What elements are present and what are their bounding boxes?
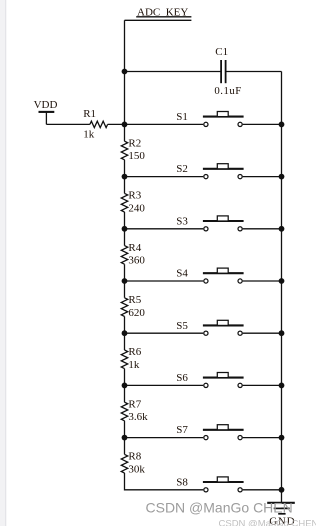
switch S5 xyxy=(125,320,282,336)
resistor R2 xyxy=(121,137,145,162)
switch S6 xyxy=(125,372,282,388)
svg-text:VDD: VDD xyxy=(34,99,58,111)
junction dots right rail xyxy=(279,122,285,493)
svg-text:R7: R7 xyxy=(128,398,141,410)
wire: R1 to left rail xyxy=(108,123,125,125)
wire: right rail xyxy=(281,72,283,503)
svg-text:R1: R1 xyxy=(83,108,96,120)
svg-text:S1: S1 xyxy=(176,111,188,123)
switch S4 xyxy=(125,268,282,284)
power VDD xyxy=(34,99,58,125)
wire: ADC_KEY stub xyxy=(125,19,192,21)
resistor R3 xyxy=(121,190,145,215)
junction dots left rail xyxy=(122,122,128,441)
wire: left rail xyxy=(125,20,204,490)
svg-text:R5: R5 xyxy=(128,294,141,306)
resistor R7 xyxy=(121,398,148,423)
svg-text:150: 150 xyxy=(128,150,145,162)
svg-text:1k: 1k xyxy=(83,129,95,141)
svg-text:1k: 1k xyxy=(128,359,140,371)
junction: left rail at C1 row xyxy=(122,69,128,75)
resistor R1 xyxy=(83,108,107,140)
net label ADC_KEY xyxy=(136,6,191,18)
svg-text:S2: S2 xyxy=(176,163,188,175)
svg-text:3.6k: 3.6k xyxy=(128,411,148,423)
svg-text:R3: R3 xyxy=(128,190,141,202)
svg-text:S5: S5 xyxy=(176,320,188,332)
svg-text:S7: S7 xyxy=(176,424,188,436)
svg-text:R8: R8 xyxy=(128,451,141,463)
svg-text:620: 620 xyxy=(128,307,145,319)
svg-text:R6: R6 xyxy=(128,346,141,358)
svg-text:CSDN @ManGo CHEN: CSDN @ManGo CHEN xyxy=(146,499,293,515)
wire: VDD to R1 xyxy=(46,123,90,125)
resistor R8 xyxy=(121,451,145,476)
resistor R4 xyxy=(121,242,145,267)
svg-text:S8: S8 xyxy=(176,476,188,488)
switch S3 xyxy=(125,215,282,231)
left page gutter xyxy=(0,0,5,526)
svg-text:S6: S6 xyxy=(176,372,188,384)
svg-text:S3: S3 xyxy=(176,215,188,227)
svg-text:30k: 30k xyxy=(128,463,145,475)
switch S8 xyxy=(176,476,281,492)
switch S7 xyxy=(125,424,282,440)
svg-text:S4: S4 xyxy=(176,268,188,280)
switch S1 xyxy=(125,111,282,127)
svg-text:C1: C1 xyxy=(215,46,228,58)
svg-text:R4: R4 xyxy=(128,242,141,254)
svg-text:0.1uF: 0.1uF xyxy=(214,85,241,97)
svg-text:360: 360 xyxy=(128,255,145,267)
svg-text:CSDN @ManGo CHEN: CSDN @ManGo CHEN xyxy=(219,518,317,526)
svg-text:R2: R2 xyxy=(128,137,141,149)
svg-text:240: 240 xyxy=(128,202,145,214)
capacitor C1 xyxy=(125,46,282,97)
switch S2 xyxy=(125,163,282,179)
resistor R5 xyxy=(121,294,145,319)
ground GND xyxy=(267,503,295,526)
resistor R6 xyxy=(121,346,141,371)
